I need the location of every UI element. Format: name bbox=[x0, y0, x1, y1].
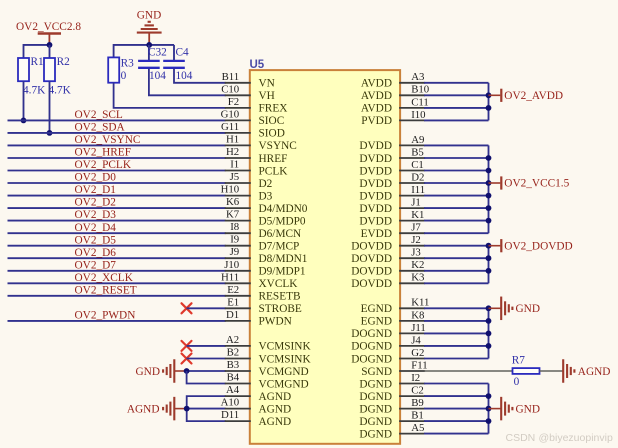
junction bus row 8 bbox=[486, 168, 492, 174]
pin K8 EGND (right) bbox=[361, 309, 425, 327]
junction bus row 16 bbox=[486, 268, 492, 274]
wire VCC2.8 rail to R1/R2 bbox=[24, 44, 50, 46]
junction bus row 11 bbox=[486, 205, 492, 211]
svg-text:D4/MDN0: D4/MDN0 bbox=[259, 203, 308, 215]
pin J2 DOVDD (right) bbox=[351, 234, 425, 252]
junction bus row 28 bbox=[486, 418, 492, 424]
svg-text:J10: J10 bbox=[224, 259, 239, 271]
no-connect X on STROBE (E1) bbox=[182, 303, 192, 313]
junction R2/OV2_SDA bbox=[47, 130, 53, 136]
svg-text:@biyezuopinvip: @biyezuopinvip bbox=[539, 432, 613, 444]
wire row 21 to bus bbox=[424, 332, 488, 334]
wire row 6 to bus bbox=[424, 144, 488, 146]
pin K6 D4/MDN0 (left) bbox=[225, 196, 308, 215]
wire power bus x488.5 rows 6-13 bbox=[488, 145, 490, 233]
svg-text:J1: J1 bbox=[411, 197, 421, 209]
svg-text:GND: GND bbox=[136, 366, 160, 378]
svg-text:DVDD: DVDD bbox=[359, 178, 392, 190]
svg-text:OV2_D6: OV2_D6 bbox=[75, 247, 117, 259]
svg-text:VN: VN bbox=[259, 78, 275, 90]
wire row 12 to bus bbox=[424, 220, 488, 222]
svg-text:GND: GND bbox=[516, 303, 540, 315]
svg-text:I8: I8 bbox=[230, 221, 239, 233]
wire VCMGND (B4) bbox=[187, 371, 226, 384]
pin B4 VCMGND (left) bbox=[225, 372, 309, 391]
no-connect X on VCMSINK (B2) bbox=[182, 354, 192, 364]
wire row 1 to bus bbox=[424, 82, 488, 84]
svg-text:B3: B3 bbox=[227, 359, 240, 371]
pin J10 D9/MDP1 (left) bbox=[224, 259, 305, 278]
svg-text:D11: D11 bbox=[221, 409, 239, 421]
junction bus row 20 bbox=[486, 318, 492, 324]
svg-text:I10: I10 bbox=[411, 109, 425, 121]
svg-text:A5: A5 bbox=[411, 422, 424, 434]
svg-text:OV2_D0: OV2_D0 bbox=[75, 172, 117, 184]
pin H11 XVCLK (left) bbox=[221, 271, 298, 290]
wire net OV2_PWDN bbox=[8, 310, 226, 322]
svg-text:H10: H10 bbox=[221, 184, 240, 196]
ground GND (right lower) bbox=[489, 397, 540, 421]
pin J7 EVDD (right) bbox=[361, 222, 425, 240]
svg-text:B4: B4 bbox=[227, 372, 240, 384]
wire AGND (A4) bbox=[187, 396, 226, 421]
svg-text:GND: GND bbox=[516, 403, 540, 415]
svg-text:DOVDD: DOVDD bbox=[351, 241, 392, 253]
wire net OV2_D4 bbox=[8, 222, 226, 234]
svg-text:OV2_HREF: OV2_HREF bbox=[75, 147, 132, 159]
pin D1 PWDN (left) bbox=[225, 309, 292, 328]
pin I2 DGND (right) bbox=[359, 372, 425, 390]
wire VCMSINK (A2) bbox=[187, 345, 226, 347]
svg-text:U5: U5 bbox=[250, 59, 265, 71]
svg-text:VSYNC: VSYNC bbox=[259, 140, 297, 152]
svg-text:D2: D2 bbox=[259, 178, 273, 190]
svg-text:DOGND: DOGND bbox=[351, 328, 392, 340]
wire R7 to AGND bbox=[540, 370, 564, 372]
svg-text:B5: B5 bbox=[411, 146, 424, 158]
pin C1 DVDD (right) bbox=[359, 159, 425, 177]
svg-text:K8: K8 bbox=[411, 309, 424, 321]
junction VCMGND bbox=[184, 368, 190, 374]
junction bus row 27 bbox=[486, 406, 492, 412]
wire VCMSINK (B2) bbox=[187, 358, 226, 360]
svg-text:D9/MDP1: D9/MDP1 bbox=[259, 266, 306, 278]
svg-text:C10: C10 bbox=[221, 83, 239, 95]
wire power bus x488.5 rows 1-4 bbox=[488, 83, 490, 121]
wire row 19 to bus bbox=[424, 307, 488, 309]
svg-text:DGND: DGND bbox=[359, 428, 392, 440]
pin G2 DOGND (right) bbox=[351, 347, 425, 365]
wire power bus x488.5 rows 14-17 bbox=[488, 246, 490, 284]
pin I9 D7/MCP (left) bbox=[225, 234, 300, 253]
resistor R3 0 bbox=[108, 44, 134, 83]
pin H2 HREF (left) bbox=[225, 146, 288, 165]
wire net OV2_SCL bbox=[8, 109, 226, 121]
wire net OV2_VSYNC bbox=[8, 134, 226, 146]
op IC U5 OV2640 body bbox=[250, 70, 400, 444]
junction bus row 2 bbox=[486, 92, 492, 98]
svg-text:DOVDD: DOVDD bbox=[351, 253, 392, 265]
svg-text:OV2_D4: OV2_D4 bbox=[75, 222, 117, 234]
wire net OV2_SDA bbox=[8, 122, 226, 134]
power port OV2_AVDD bbox=[489, 89, 564, 102]
svg-text:AVDD: AVDD bbox=[361, 78, 392, 90]
pin K2 DOVDD (right) bbox=[351, 259, 425, 277]
pin H10 D3 (left) bbox=[221, 184, 273, 203]
svg-text:0: 0 bbox=[514, 376, 520, 388]
pin J5 D2 (left) bbox=[225, 171, 273, 190]
pin K1 DVDD (right) bbox=[359, 209, 425, 227]
svg-text:DGND: DGND bbox=[359, 403, 392, 415]
ground GND (right upper) bbox=[489, 297, 540, 321]
pin I8 D6/MCN (left) bbox=[225, 221, 301, 240]
wire net OV2_D1 bbox=[8, 184, 226, 196]
svg-text:HREF: HREF bbox=[259, 153, 288, 165]
pin E1 STROBE (left) bbox=[225, 296, 302, 315]
svg-text:VCMSINK: VCMSINK bbox=[259, 353, 312, 365]
ground AGND (right) bbox=[563, 359, 610, 383]
wire row 11 to bus bbox=[424, 207, 488, 209]
svg-text:VCMSINK: VCMSINK bbox=[259, 341, 312, 353]
svg-text:C2: C2 bbox=[411, 385, 424, 397]
svg-text:AVDD: AVDD bbox=[361, 90, 392, 102]
svg-text:B11: B11 bbox=[222, 71, 240, 83]
svg-text:VCMGND: VCMGND bbox=[259, 366, 309, 378]
junction bus row 26 bbox=[486, 393, 492, 399]
junction bus row 14 bbox=[486, 243, 492, 249]
wire net OV2_PCLK bbox=[8, 159, 226, 171]
pin C11 AVDD (right) bbox=[361, 96, 429, 114]
capacitor C4 104 bbox=[163, 45, 193, 82]
svg-text:OV2_SDA: OV2_SDA bbox=[75, 122, 126, 134]
svg-text:A10: A10 bbox=[221, 397, 240, 409]
svg-text:AGND: AGND bbox=[578, 366, 611, 378]
svg-text:C11: C11 bbox=[411, 96, 429, 108]
svg-text:K3: K3 bbox=[411, 272, 424, 284]
svg-text:DVDD: DVDD bbox=[359, 203, 392, 215]
junction bus row 9 bbox=[486, 180, 492, 186]
power port OV2_DOVDD bbox=[489, 239, 573, 252]
wire row 25 to bus bbox=[424, 383, 488, 385]
pin K11 EGND (right) bbox=[361, 297, 430, 315]
pin J11 DOGND (right) bbox=[351, 322, 426, 340]
svg-text:AGND: AGND bbox=[127, 403, 160, 415]
svg-text:4.7K: 4.7K bbox=[23, 85, 46, 97]
svg-text:OV2_VCC1.5: OV2_VCC1.5 bbox=[504, 178, 569, 190]
wire net OV2_D7 bbox=[8, 259, 226, 271]
wire net OV2_D5 bbox=[8, 234, 226, 246]
svg-text:104: 104 bbox=[176, 70, 193, 82]
wire power bus x488.5 rows 19-23 bbox=[488, 308, 490, 358]
svg-text:XVCLK: XVCLK bbox=[259, 278, 299, 290]
svg-text:DOGND: DOGND bbox=[351, 341, 392, 353]
svg-text:D2: D2 bbox=[411, 171, 424, 183]
svg-text:J7: J7 bbox=[411, 222, 421, 234]
wire row 14 to bus bbox=[424, 245, 488, 247]
svg-text:G2: G2 bbox=[411, 347, 424, 359]
wire row 4 to bus bbox=[424, 119, 488, 121]
svg-text:SGND: SGND bbox=[361, 366, 392, 378]
wire row 29 to bus bbox=[424, 433, 488, 435]
svg-text:OV2_D3: OV2_D3 bbox=[75, 209, 117, 221]
svg-text:K6: K6 bbox=[226, 196, 240, 208]
svg-text:I2: I2 bbox=[411, 372, 420, 384]
wire row 17 to bus bbox=[424, 282, 488, 284]
wire net OV2_HREF bbox=[8, 147, 226, 159]
svg-text:J5: J5 bbox=[230, 171, 240, 183]
resistor R2 4.7K bbox=[44, 45, 72, 133]
wire net OV2_XCLK bbox=[8, 272, 226, 284]
svg-text:EVDD: EVDD bbox=[361, 228, 392, 240]
wire row 22 to bus bbox=[424, 345, 488, 347]
pin J9 D8/MDN1 (left) bbox=[225, 246, 308, 265]
svg-text:OV2_D2: OV2_D2 bbox=[75, 197, 117, 209]
wire row 3 to bus bbox=[424, 107, 488, 109]
wire row 16 to bus bbox=[424, 270, 488, 272]
svg-text:OV2_D7: OV2_D7 bbox=[75, 259, 117, 271]
svg-text:AVDD: AVDD bbox=[361, 103, 392, 115]
capacitor C32 104 bbox=[138, 45, 167, 82]
pin B11 VN (left) bbox=[222, 71, 275, 90]
wire row 13 to bus bbox=[424, 232, 488, 234]
svg-text:H2: H2 bbox=[226, 146, 239, 158]
pin H1 VSYNC (left) bbox=[225, 133, 297, 152]
svg-text:D6/MCN: D6/MCN bbox=[259, 228, 302, 240]
junction bus row 21 bbox=[486, 331, 492, 337]
svg-text:D8/MDN1: D8/MDN1 bbox=[259, 253, 308, 265]
pin G11 SIOD (left) bbox=[221, 121, 285, 140]
pin I10 PVDD (right) bbox=[361, 109, 425, 127]
wire row 15 to bus bbox=[424, 257, 488, 259]
wire row 10 to bus bbox=[424, 195, 488, 197]
svg-text:I9: I9 bbox=[230, 234, 239, 246]
pin I1 PCLK (left) bbox=[225, 159, 289, 178]
svg-text:R1: R1 bbox=[31, 56, 44, 68]
junction bus row 12 bbox=[486, 218, 492, 224]
wire AGND (A10) bbox=[187, 408, 226, 410]
svg-text:D3: D3 bbox=[259, 190, 273, 202]
resistor R7 0 bbox=[512, 355, 540, 388]
svg-text:DGND: DGND bbox=[359, 416, 392, 428]
wire STROBE (E1) bbox=[187, 307, 226, 309]
wire row 26 to bus bbox=[424, 395, 488, 397]
svg-text:PWDN: PWDN bbox=[259, 316, 292, 328]
svg-text:4.7K: 4.7K bbox=[49, 85, 72, 97]
svg-text:F2: F2 bbox=[228, 96, 239, 108]
svg-text:OV2_SCL: OV2_SCL bbox=[75, 109, 123, 121]
svg-text:A3: A3 bbox=[411, 71, 424, 83]
svg-text:A4: A4 bbox=[226, 384, 240, 396]
svg-text:B10: B10 bbox=[411, 84, 429, 96]
svg-text:J3: J3 bbox=[411, 247, 421, 259]
wire net OV2_RESET bbox=[8, 284, 226, 296]
junction AGND bbox=[184, 406, 190, 412]
svg-text:OV2_PCLK: OV2_PCLK bbox=[75, 159, 132, 171]
junction R1/OV2_SCL bbox=[21, 118, 27, 124]
wire net OV2_D0 bbox=[8, 172, 226, 184]
svg-text:CSDN: CSDN bbox=[506, 432, 536, 444]
junction bus row 10 bbox=[486, 193, 492, 199]
wire net OV2_D3 bbox=[8, 209, 226, 221]
junction bus row 3 bbox=[486, 105, 492, 111]
pin E2 RESETB (left) bbox=[225, 284, 301, 303]
svg-text:C4: C4 bbox=[176, 47, 190, 59]
wire C32 to VH (C10) bbox=[149, 68, 226, 95]
wire row 9 to bus bbox=[424, 182, 488, 184]
svg-text:E1: E1 bbox=[227, 296, 239, 308]
svg-text:G11: G11 bbox=[221, 121, 239, 133]
svg-text:D5/MDP0: D5/MDP0 bbox=[259, 215, 306, 227]
wire power bus x488.5 rows 25-29 bbox=[488, 384, 490, 434]
wire C4 to VN (B11) bbox=[174, 68, 226, 82]
pin J3 DOVDD (right) bbox=[351, 247, 425, 265]
pin A3 AVDD (right) bbox=[361, 71, 425, 89]
svg-text:K2: K2 bbox=[411, 259, 424, 271]
svg-text:EGND: EGND bbox=[361, 316, 392, 328]
pin G10 SIOC (left) bbox=[221, 108, 285, 127]
wire row 7 to bus bbox=[424, 157, 488, 159]
pin C2 DGND (right) bbox=[359, 385, 425, 403]
svg-text:DVDD: DVDD bbox=[359, 215, 392, 227]
junction bus row 15 bbox=[486, 255, 492, 261]
svg-text:OV2_AVDD: OV2_AVDD bbox=[504, 90, 563, 102]
svg-text:SIOD: SIOD bbox=[259, 128, 285, 140]
pin D11 AGND (left) bbox=[221, 409, 291, 428]
svg-text:F11: F11 bbox=[411, 359, 427, 371]
ground GND (left, VCMGND) bbox=[136, 359, 187, 383]
svg-text:SIOC: SIOC bbox=[259, 115, 285, 127]
no-connect X on VCMSINK (A2) bbox=[182, 341, 192, 351]
svg-text:AGND: AGND bbox=[259, 403, 292, 415]
svg-text:A9: A9 bbox=[411, 134, 424, 146]
pin A10 AGND (left) bbox=[221, 397, 292, 416]
pin A9 DVDD (right) bbox=[359, 134, 425, 152]
pin B1 DGND (right) bbox=[359, 410, 425, 428]
svg-text:AGND: AGND bbox=[259, 416, 292, 428]
svg-text:R2: R2 bbox=[57, 56, 71, 68]
wire row 27 to bus bbox=[424, 408, 488, 410]
svg-text:OV2_RESET: OV2_RESET bbox=[75, 284, 137, 296]
wire row 8 to bus bbox=[424, 170, 488, 172]
svg-text:DGND: DGND bbox=[359, 378, 392, 390]
svg-text:0: 0 bbox=[121, 70, 127, 82]
pin B9 DGND (right) bbox=[359, 397, 425, 415]
svg-text:B9: B9 bbox=[411, 397, 424, 409]
svg-text:AGND: AGND bbox=[259, 391, 292, 403]
svg-text:DVDD: DVDD bbox=[359, 190, 392, 202]
svg-text:VCMGND: VCMGND bbox=[259, 378, 309, 390]
svg-text:R7: R7 bbox=[512, 355, 526, 367]
ground AGND (left) bbox=[127, 397, 187, 421]
svg-text:J11: J11 bbox=[411, 322, 426, 334]
power port OV2_VCC1.5 bbox=[489, 176, 570, 189]
pin B10 AVDD (right) bbox=[361, 84, 429, 102]
svg-text:R3: R3 bbox=[121, 57, 135, 69]
svg-text:DOVDD: DOVDD bbox=[351, 278, 392, 290]
pin A2 VCMSINK (left) bbox=[225, 334, 312, 353]
resistor R1 4.7K bbox=[18, 44, 46, 120]
wire VCMGND (B3) bbox=[187, 370, 226, 372]
svg-text:DGND: DGND bbox=[359, 391, 392, 403]
junction bus row 22 bbox=[486, 343, 492, 349]
svg-text:STROBE: STROBE bbox=[259, 303, 302, 315]
junction VCC2.8/R2 bbox=[47, 42, 53, 48]
ground GND (top) bbox=[137, 9, 162, 45]
junction bus row 7 bbox=[486, 155, 492, 161]
svg-text:H11: H11 bbox=[221, 271, 239, 283]
junction GND rail bbox=[146, 42, 152, 48]
pin A5 DGND (right) bbox=[359, 422, 425, 440]
svg-text:C1: C1 bbox=[411, 159, 424, 171]
svg-text:G10: G10 bbox=[221, 108, 240, 120]
junction bus row 19 bbox=[486, 305, 492, 311]
pin J4 DOGND (right) bbox=[351, 334, 425, 352]
pin B3 VCMGND (left) bbox=[225, 359, 309, 378]
svg-text:OV2_D1: OV2_D1 bbox=[75, 184, 116, 196]
wire GND rail (R3,C32,C4 tops) bbox=[114, 44, 174, 46]
svg-text:OV2_DOVDD: OV2_DOVDD bbox=[504, 240, 572, 252]
svg-text:D7/MCP: D7/MCP bbox=[259, 241, 300, 253]
wire row 2 to bus bbox=[424, 94, 488, 96]
svg-text:RESETB: RESETB bbox=[259, 291, 301, 303]
svg-text:OV2_VCC2.8: OV2_VCC2.8 bbox=[16, 21, 81, 33]
svg-text:DOVDD: DOVDD bbox=[351, 266, 392, 278]
svg-text:I1: I1 bbox=[230, 159, 239, 171]
svg-text:H1: H1 bbox=[226, 133, 239, 145]
svg-text:OV2_D5: OV2_D5 bbox=[75, 234, 117, 246]
svg-text:I11: I11 bbox=[411, 184, 425, 196]
svg-text:OV2_XCLK: OV2_XCLK bbox=[75, 272, 134, 284]
pin B5 DVDD (right) bbox=[359, 146, 425, 164]
pin F11 SGND (right) bbox=[361, 359, 427, 377]
svg-text:B1: B1 bbox=[411, 410, 424, 422]
pin D2 DVDD (right) bbox=[359, 171, 425, 189]
wire SGND (F11) to R7 bbox=[424, 370, 512, 372]
power port OV2_VCC2.8 bbox=[16, 21, 81, 45]
svg-text:D1: D1 bbox=[226, 309, 239, 321]
pin K3 DOVDD (right) bbox=[351, 272, 425, 290]
svg-text:B2: B2 bbox=[227, 347, 240, 359]
svg-text:A2: A2 bbox=[226, 334, 239, 346]
pin A4 AGND (left) bbox=[225, 384, 291, 403]
svg-text:K1: K1 bbox=[411, 209, 424, 221]
pin J1 DVDD (right) bbox=[359, 197, 425, 215]
svg-text:FREX: FREX bbox=[259, 103, 288, 115]
svg-text:DVDD: DVDD bbox=[359, 140, 392, 152]
svg-text:J4: J4 bbox=[411, 334, 421, 346]
svg-text:PVDD: PVDD bbox=[361, 115, 392, 127]
svg-text:K11: K11 bbox=[411, 297, 429, 309]
svg-text:PCLK: PCLK bbox=[259, 165, 289, 177]
svg-text:EGND: EGND bbox=[361, 303, 392, 315]
svg-text:104: 104 bbox=[149, 70, 166, 82]
svg-text:VH: VH bbox=[259, 90, 275, 102]
wire row 20 to bus bbox=[424, 320, 488, 322]
svg-text:K7: K7 bbox=[226, 209, 240, 221]
pin I11 DVDD (right) bbox=[359, 184, 425, 202]
svg-text:J2: J2 bbox=[411, 234, 421, 246]
wire net OV2_D6 bbox=[8, 247, 226, 259]
svg-text:DOGND: DOGND bbox=[351, 353, 392, 365]
wire net OV2_D2 bbox=[8, 197, 226, 209]
svg-text:DVDD: DVDD bbox=[359, 165, 392, 177]
wire row 23 to bus bbox=[424, 358, 488, 360]
pin F2 FREX (left) bbox=[225, 96, 288, 115]
svg-text:OV2_PWDN: OV2_PWDN bbox=[75, 310, 136, 322]
svg-text:GND: GND bbox=[137, 9, 161, 21]
svg-text:E2: E2 bbox=[227, 284, 239, 296]
pin B2 VCMSINK (left) bbox=[225, 347, 312, 366]
